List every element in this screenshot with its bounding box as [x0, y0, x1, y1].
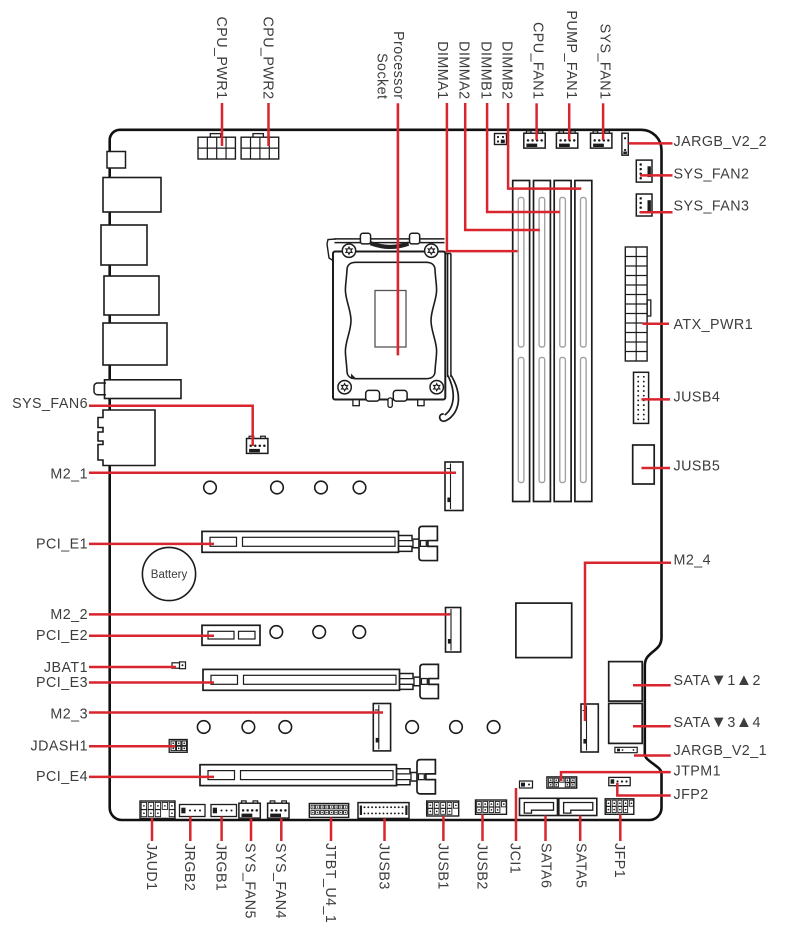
leader M2_2 [89, 613, 450, 616]
DIMM slot DIMMB1 [554, 181, 571, 502]
svg-text:Processor: Processor [390, 31, 406, 99]
label JAUD1 [143, 843, 159, 891]
svg-text:SATA▼3▲4: SATA▼3▲4 [674, 713, 761, 731]
label M2_2 [50, 607, 88, 623]
io port block 2 [101, 225, 147, 265]
leader SATA3/4 [633, 725, 671, 728]
label ATX_PWR1 [674, 317, 754, 333]
svg-text:SATA6: SATA6 [537, 843, 553, 888]
leader SYS_FAN3 [640, 211, 673, 214]
connector PUMP_FAN1 [556, 131, 577, 148]
label JCI1 [506, 843, 522, 874]
leader JARGB_V2_2 [629, 142, 673, 145]
leader JARGB_V2_1 [634, 754, 671, 757]
label JFP2 [674, 787, 709, 803]
svg-text:JRGB2: JRGB2 [181, 843, 197, 891]
leader DIMMB1 [487, 103, 560, 212]
label JDASH1 [30, 739, 88, 755]
label DIMMB1 [478, 41, 494, 99]
svg-text:DIMMA1: DIMMA1 [434, 41, 450, 99]
connector SATA6 [520, 798, 558, 815]
svg-text:SYS_FAN3: SYS_FAN3 [674, 198, 750, 214]
leader DIMMB2 [508, 103, 581, 189]
svg-text:JBAT1: JBAT1 [44, 660, 88, 676]
connector SATA1/2 [609, 662, 643, 702]
connector SYS_FAN2 [636, 160, 652, 182]
connector SYS_FAN6 [247, 436, 268, 453]
leader JTBT_U4_1 [330, 817, 333, 841]
io bracket tab [107, 152, 126, 169]
svg-text:SYS_FAN4: SYS_FAN4 [272, 843, 288, 919]
leader JUSB4 [642, 398, 671, 401]
label JARGB_V2_2 [674, 134, 768, 150]
label SATA 1 2 [674, 671, 761, 689]
svg-text:JFP1: JFP1 [611, 843, 627, 878]
leader JRGB1 [220, 817, 223, 842]
svg-text:JTPM1: JTPM1 [674, 764, 722, 780]
connector SATA5 [559, 798, 597, 815]
svg-text:M2_2: M2_2 [50, 607, 88, 623]
label CPU_PWR2 [259, 16, 275, 99]
leader SATA6 [544, 816, 547, 842]
motherboard board outline [110, 130, 662, 820]
leader JFP2 [617, 783, 670, 796]
DIMM slot DIMMB2 [575, 181, 592, 502]
label PCI_E2 [36, 628, 88, 644]
label JRGB1 [212, 843, 228, 891]
label SYS_FAN5 [241, 843, 257, 919]
svg-text:SYS_FAN2: SYS_FAN2 [674, 166, 750, 182]
svg-text:JARGB_V2_1: JARGB_V2_1 [674, 743, 768, 759]
label M2_3 [50, 706, 88, 722]
svg-text:DIMMB1: DIMMB1 [478, 41, 494, 99]
label JFP1 [611, 843, 627, 878]
connector CPU_PWR2 (8-pin) [241, 134, 279, 159]
connector JUSB4 [634, 372, 649, 423]
io audio block [98, 410, 155, 466]
leader JRGB2 [189, 817, 192, 842]
DIMM slot DIMMA2 [534, 181, 551, 502]
label SYS_FAN2 [674, 166, 750, 182]
leader PCI_E4 [89, 776, 214, 779]
leader JTPM1 [561, 772, 671, 781]
label JTBT_U4_1 [322, 843, 338, 923]
connector JTPM1 [547, 777, 577, 788]
leader M2_4 [585, 563, 671, 721]
connector SYS_FAN3 [636, 194, 652, 216]
connector JFP2 [609, 777, 630, 785]
connector M2_2 [446, 608, 461, 653]
svg-text:Battery: Battery [151, 569, 188, 581]
svg-text:JUSB4: JUSB4 [674, 390, 721, 406]
label SATA6 [537, 843, 553, 888]
leader CPU_PWR1 [221, 103, 224, 146]
label DIMMA1 [434, 41, 450, 99]
svg-text:CPU_PWR1: CPU_PWR1 [213, 16, 229, 99]
leader M2_1 [89, 472, 456, 475]
label DIMMA2 [455, 41, 471, 99]
connector M2_3 [373, 704, 390, 751]
CPU socket (Processor Socket) [327, 233, 458, 421]
label SATA5 [572, 843, 588, 888]
PCIe slot PCI_E1 [202, 526, 437, 560]
svg-text:PCI_E4: PCI_E4 [36, 769, 88, 785]
label JUSB1 [434, 843, 450, 890]
label JRGB2 [181, 843, 197, 891]
svg-text:PCI_E3: PCI_E3 [36, 675, 88, 691]
label DIMMB2 [498, 41, 514, 99]
svg-text:DIMMB2: DIMMB2 [498, 41, 514, 99]
leader JDASH1 [89, 745, 175, 748]
leader CPU_PWR2 [267, 103, 270, 146]
connector CPU_PWR1 (8-pin) [198, 134, 235, 159]
leader SYS_FAN4 [280, 818, 283, 841]
svg-text:JUSB2: JUSB2 [473, 843, 489, 890]
leader JCI1 [515, 788, 518, 841]
leader CPU_FAN1 [535, 103, 538, 140]
connector JUSB5 [633, 445, 655, 484]
connector SYS_FAN5 [239, 801, 260, 818]
label PCI_E3 [36, 675, 88, 691]
leader JAUD1 [151, 818, 154, 841]
leader PUMP_FAN1 [568, 103, 571, 140]
connector JRGB2 [180, 805, 206, 817]
svg-text:ATX_PWR1: ATX_PWR1 [674, 317, 754, 333]
svg-text:M2_1: M2_1 [50, 467, 88, 483]
PCIe slot PCI_E3 [203, 664, 438, 698]
leader SYS_FAN6 [89, 406, 253, 446]
label PCI_E4 [36, 769, 88, 785]
svg-text:JARGB_V2_2: JARGB_V2_2 [674, 134, 768, 150]
svg-text:JRGB1: JRGB1 [212, 843, 228, 891]
connector JARGB_V2_1 [615, 747, 637, 752]
label SATA 3 4 [674, 713, 761, 731]
connector JUSB3 [358, 803, 409, 819]
mounting holes row 3 [197, 721, 500, 734]
PCIe slot PCI_E2 (x1) [202, 625, 260, 645]
connector M2_4 [581, 704, 598, 752]
svg-text:M2_4: M2_4 [674, 553, 712, 569]
svg-text:JDASH1: JDASH1 [30, 739, 88, 755]
leader DIMMA1 [447, 103, 518, 251]
connector JRGB1 [211, 805, 237, 817]
connector SATA3/4 [609, 703, 643, 743]
label M2_4 [674, 553, 712, 569]
svg-text:JUSB1: JUSB1 [434, 843, 450, 890]
connector JDASH1 [169, 740, 187, 753]
label JUSB2 [473, 843, 489, 890]
leader DIMMA2 [465, 103, 540, 230]
svg-text:SYS_FAN5: SYS_FAN5 [241, 843, 257, 919]
svg-text:JUSB3: JUSB3 [375, 843, 391, 890]
mounting holes row 2 [270, 626, 366, 639]
leader JUSB2 [481, 814, 484, 841]
label Processor Socket [373, 31, 406, 99]
connector CPU_FAN1 [524, 131, 545, 148]
io port block 1 [103, 178, 161, 213]
battery [142, 547, 195, 600]
connector JCI1 [520, 781, 533, 788]
leader SATA1/2 [633, 684, 671, 687]
connector SYS_FAN1 [591, 131, 612, 148]
leader ATX_PWR1 [643, 322, 670, 325]
label CPU_PWR1 [213, 16, 229, 99]
svg-text:SYS_FAN6: SYS_FAN6 [12, 396, 88, 412]
svg-text:SATA▼1▲2: SATA▼1▲2 [674, 671, 761, 689]
svg-text:CPU_PWR2: CPU_PWR2 [259, 16, 275, 99]
label CPU_FAN1 [530, 22, 546, 100]
io lan usb block [94, 380, 181, 399]
leader JBAT1 [89, 666, 176, 669]
label M2_1 [50, 467, 88, 483]
leader JUSB3 [383, 818, 386, 841]
svg-text:CPU_FAN1: CPU_FAN1 [530, 22, 546, 100]
mounting holes row 1 [204, 481, 366, 494]
svg-text:DIMMA2: DIMMA2 [455, 41, 471, 99]
connector ATX_PWR1 (24-pin) [625, 247, 651, 361]
io port block 4 [103, 323, 167, 365]
leader JUSB1 [442, 816, 445, 841]
label SYS_FAN6 [12, 396, 88, 412]
connector JBAT1 [172, 662, 186, 669]
leader PCI_E3 [89, 681, 214, 684]
DIMM slot DIMMA1 [513, 181, 530, 502]
label JARGB_V2_1 [674, 743, 768, 759]
leader Processor Socket [397, 103, 400, 355]
svg-text:JFP2: JFP2 [674, 787, 709, 803]
small header JBLK1 [495, 134, 507, 145]
svg-text:PUMP_FAN1: PUMP_FAN1 [563, 10, 579, 99]
label JTPM1 [674, 764, 722, 780]
leader SYS_FAN5 [250, 818, 253, 841]
svg-text:M2_3: M2_3 [50, 706, 88, 722]
label JUSB3 [375, 843, 391, 890]
connector JARGB_V2_2 [622, 133, 628, 155]
label JUSB5 [674, 459, 721, 475]
label PCI_E1 [36, 537, 88, 553]
leader M2_3 [89, 711, 383, 714]
label SYS_FAN4 [272, 843, 288, 919]
connector M2_1 [445, 462, 463, 511]
label SYS_FAN1 [597, 24, 613, 100]
connector JAUD1 [140, 801, 175, 818]
svg-text:PCI_E1: PCI_E1 [36, 537, 88, 553]
leader PCI_E2 [89, 634, 214, 637]
svg-text:SYS_FAN1: SYS_FAN1 [597, 24, 613, 100]
connector JFP1 [605, 799, 634, 815]
label JBAT1 [44, 660, 88, 676]
svg-text:Socket: Socket [373, 53, 389, 99]
leader PCI_E1 [89, 543, 214, 546]
connector JTBT_U4_1 [309, 804, 348, 818]
svg-text:PCI_E2: PCI_E2 [36, 628, 88, 644]
connector JUSB1 [427, 801, 459, 816]
svg-text:JTBT_U4_1: JTBT_U4_1 [322, 843, 338, 923]
connector SYS_FAN4 [268, 801, 289, 818]
svg-text:JUSB5: JUSB5 [674, 459, 721, 475]
leader SYS_FAN2 [640, 174, 673, 177]
svg-text:JCI1: JCI1 [506, 843, 522, 874]
leader JFP1 [619, 814, 622, 841]
io port block 3 [104, 276, 159, 315]
leader SATA5 [579, 816, 582, 842]
label JUSB4 [674, 390, 721, 406]
connector JUSB2 [476, 800, 507, 814]
label SYS_FAN3 [674, 198, 750, 214]
PCIe slot PCI_E4 [200, 760, 435, 794]
label PUMP_FAN1 [563, 10, 579, 99]
svg-text:SATA5: SATA5 [572, 843, 588, 888]
chipset block [516, 603, 572, 658]
svg-text:JAUD1: JAUD1 [143, 843, 159, 891]
leader SYS_FAN1 [602, 103, 605, 140]
leader JUSB5 [642, 467, 671, 470]
